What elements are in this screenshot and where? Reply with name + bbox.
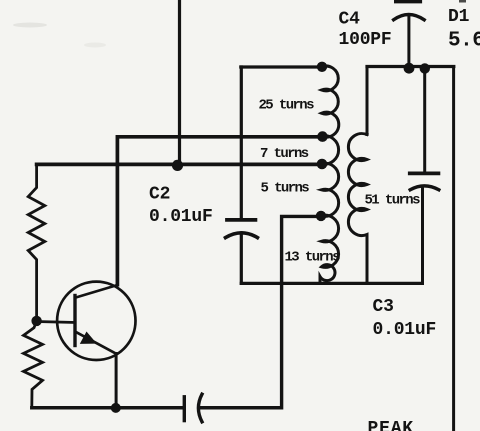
wire: bottom mid rail y=283 xyxy=(241,282,422,285)
capacitor C4 curved plate xyxy=(394,15,425,20)
svg-text:0.01uF: 0.01uF xyxy=(373,320,437,340)
node: resistor divider / base xyxy=(31,316,41,326)
node: tap 7/5 xyxy=(317,159,328,170)
transistor Q1 emitter lead xyxy=(76,332,117,354)
scan smudge xyxy=(13,23,47,28)
transistor Q1 collector lead xyxy=(76,285,118,298)
scan smudge xyxy=(84,43,106,48)
wire: top-left rail C2 top to coil top xyxy=(241,65,322,68)
node: coil top junction xyxy=(317,62,327,72)
capacitor C5 left plate xyxy=(183,397,186,421)
svg-text:D1: D1 xyxy=(448,7,470,27)
capacitor C4 stem xyxy=(407,17,410,68)
wire: emitter vertical to bottom rail xyxy=(115,354,118,408)
wire: C2 bottom stem xyxy=(240,233,243,283)
wire: C2 top stem xyxy=(240,67,243,218)
transistor Q1 emitter arrow xyxy=(80,332,97,344)
capacitor C5 curved plate xyxy=(198,394,202,422)
node: emitter on bottom rail xyxy=(111,403,121,413)
wire: top-right rail xyxy=(367,65,454,68)
node: tap 5/13 xyxy=(316,211,326,221)
capacitor C3 flat plate xyxy=(410,171,439,175)
svg-text:13 turns: 13 turns xyxy=(285,250,341,266)
capacitor C2 curved plate xyxy=(226,233,258,238)
wire: right edge vertical rail xyxy=(452,67,455,431)
wire: right coil top stem xyxy=(366,67,369,135)
capacitor C4 flat plate xyxy=(396,0,421,3)
wire: tap 7/5 to left resistors xyxy=(37,163,322,167)
svg-text:7 turns: 7 turns xyxy=(260,146,309,162)
wire: base lead xyxy=(37,322,75,323)
svg-text:5 turns: 5 turns xyxy=(261,181,310,197)
svg-text:0.01uF: 0.01uF xyxy=(149,207,213,227)
node: tap 25/7 xyxy=(317,131,328,142)
svg-text:51 turns: 51 turns xyxy=(365,193,421,209)
svg-text:25 turns: 25 turns xyxy=(259,98,315,114)
svg-text:C3: C3 xyxy=(373,297,394,317)
svg-text:PEAK: PEAK xyxy=(368,419,414,431)
wire: C3 top stem xyxy=(423,68,426,172)
svg-text:C2: C2 xyxy=(149,185,170,205)
svg-text:100PF: 100PF xyxy=(339,30,392,50)
resistor R2 xyxy=(24,321,43,408)
svg-text:C4: C4 xyxy=(339,10,361,30)
wire: bottom rail left segment xyxy=(32,406,184,410)
wire: tap 25/7 to collector vertical xyxy=(117,137,321,285)
wire: C3 bottom stem xyxy=(421,186,424,283)
capacitor C3 curved plate xyxy=(410,186,439,190)
capacitor C2 flat plate xyxy=(227,218,255,222)
node: C4 stem on rail xyxy=(404,63,415,74)
resistor R1 xyxy=(28,164,45,321)
wire: vertical feed from top to node on 7-turns tap xyxy=(178,0,181,165)
node: C3 stem on rail xyxy=(420,63,430,73)
wire: tap 5/13 to lower vertical xyxy=(282,216,322,407)
transistor Q1 base bar xyxy=(73,296,76,346)
wire: bottom rail right segment to corner up xyxy=(201,406,281,410)
inductor L1 primary winding (25+7+5+13 turns) xyxy=(320,66,339,283)
node: feed joins 7-turn tap wire xyxy=(172,160,183,171)
svg-text:5.6: 5.6 xyxy=(448,30,480,53)
inductor L2 secondary winding (51 turns) xyxy=(348,134,367,284)
scan speck xyxy=(459,0,466,3)
transistor Q1 circle xyxy=(57,282,135,360)
